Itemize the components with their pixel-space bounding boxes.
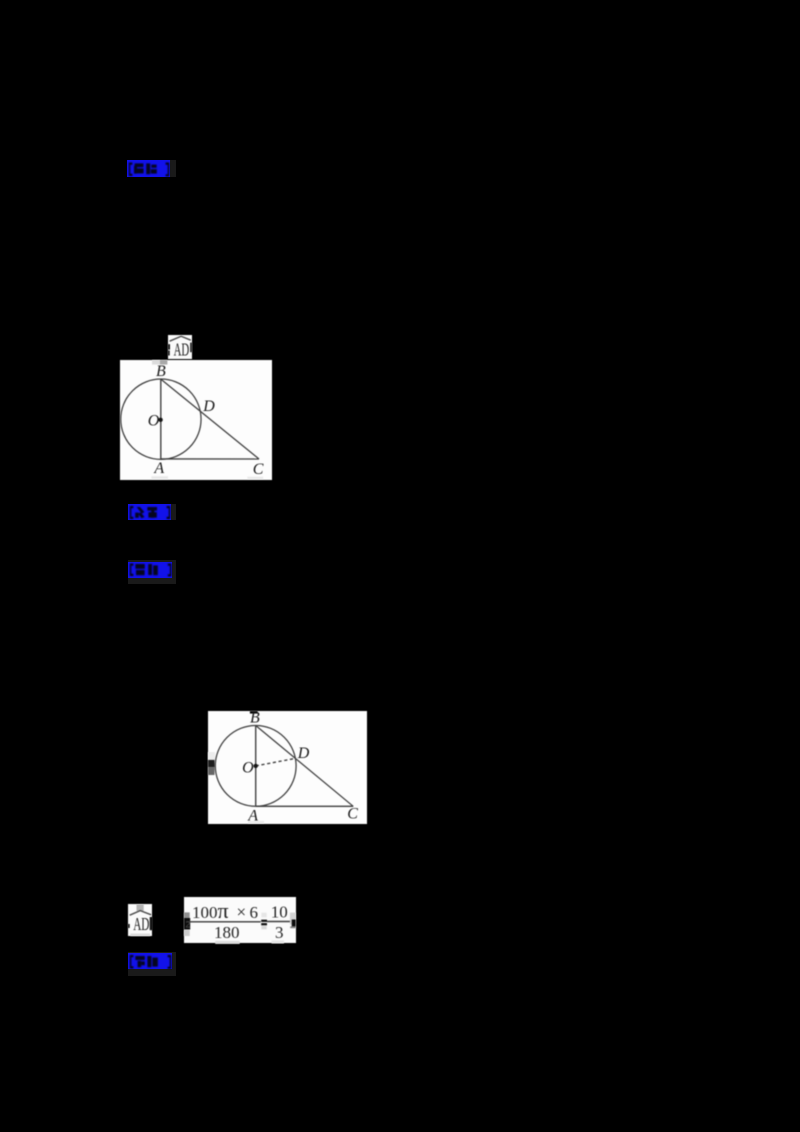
svg-text:π: π — [218, 898, 229, 923]
geometry figure 2: circle O with dashed OD — [208, 711, 367, 823]
equation image: arc AD (first) — [168, 335, 192, 359]
blue highlight label 2 — [128, 504, 176, 521]
blue highlight label 1 — [127, 160, 176, 177]
svg-text:100: 100 — [192, 903, 218, 922]
svg-text:3: 3 — [275, 923, 284, 942]
svg-text:A: A — [248, 808, 259, 825]
equation image: arc AD (second) — [128, 904, 153, 936]
svg-text:O: O — [148, 412, 160, 429]
svg-text:C: C — [348, 806, 359, 823]
blue highlight label 4 — [128, 952, 176, 976]
svg-text:D: D — [202, 398, 215, 415]
svg-text:×: × — [237, 902, 247, 921]
svg-text:AD: AD — [133, 914, 149, 934]
svg-text:O: O — [242, 760, 254, 777]
svg-text:B: B — [156, 363, 166, 380]
svg-text:6: 6 — [250, 903, 259, 922]
blue highlight label 3 — [128, 560, 176, 584]
svg-text:B: B — [250, 711, 260, 727]
svg-text:A: A — [153, 460, 164, 477]
equation image: 100pi*6/180 = 10/3 — [184, 897, 296, 943]
svg-text:C: C — [253, 461, 264, 478]
svg-text:AD: AD — [173, 340, 189, 359]
svg-text:180: 180 — [214, 923, 240, 942]
svg-text:2: 2 — [186, 919, 191, 929]
geometry figure 1: circle O with triangle ABC — [120, 360, 272, 480]
svg-text:10: 10 — [271, 902, 288, 921]
svg-text:D: D — [297, 745, 310, 762]
